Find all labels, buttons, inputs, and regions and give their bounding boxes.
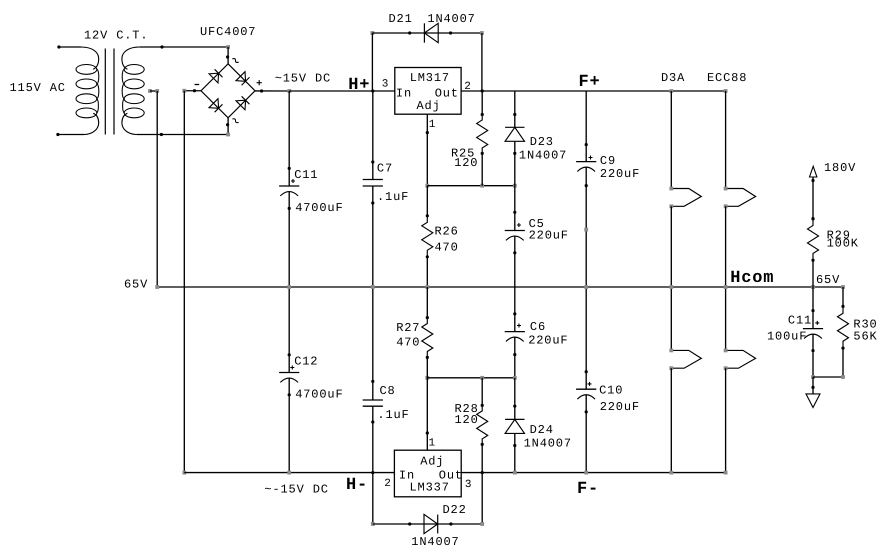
bridge ~ label top [232, 57, 238, 63]
svg-text:1: 1 [429, 119, 436, 131]
svg-text:120: 120 [455, 413, 479, 427]
resistor R29 [808, 219, 819, 261]
svg-text:~-15V DC: ~-15V DC [264, 483, 328, 497]
diode D22 [373, 523, 482, 525]
svg-text:100uF: 100uF [767, 329, 807, 343]
wire 180V to R29 [812, 177, 814, 219]
capacitor C11 100uF [812, 311, 814, 329]
svg-text:C7: C7 [377, 161, 393, 175]
tube D3A heater upper [671, 189, 701, 207]
svg-text:220uF: 220uF [528, 334, 568, 348]
bridge rectifier outline [201, 64, 255, 118]
wire D3A heater lower to F- [670, 368, 672, 472]
wire D3A heater upper riser [669, 89, 673, 93]
svg-text:220uF: 220uF [600, 400, 640, 414]
wire bridge minus vertical [183, 91, 185, 473]
svg-text:470: 470 [396, 336, 420, 350]
transformer T1 secondary winding [122, 47, 140, 69]
svg-text:C11: C11 [294, 168, 318, 182]
diode D21 [372, 32, 482, 34]
capacitor C12 [288, 355, 290, 373]
op-amp U1 LM317 box [395, 68, 461, 115]
wire C9 to rail [585, 186, 587, 287]
wire adj row bottom [425, 376, 429, 380]
wire bridge top stub [226, 45, 230, 49]
svg-text:Adj: Adj [417, 99, 441, 113]
wire C8 to H- [372, 422, 374, 473]
svg-text:C12: C12 [294, 355, 318, 369]
svg-text:D21: D21 [389, 12, 413, 26]
wire bridge bottom stub [227, 118, 229, 135]
svg-text:2: 2 [384, 478, 391, 490]
wire LM317 out [461, 90, 725, 92]
capacitor C10 [585, 372, 587, 390]
svg-text:1N4007: 1N4007 [524, 437, 572, 451]
resistor R28 [481, 378, 483, 406]
transformer T1 primary top lead [59, 46, 81, 48]
wire ECC88 heater lower to F- [725, 368, 727, 472]
capacitor C6 [514, 314, 516, 332]
resistor R27 [426, 287, 428, 318]
wire H- drop to D22 [372, 473, 374, 524]
wire ECC88 heater upper riser [724, 89, 728, 93]
wire bridge right output [255, 90, 289, 92]
svg-text:R26: R26 [435, 225, 459, 239]
svg-text:H-: H- [346, 476, 368, 495]
wire C11 to ground row [812, 351, 814, 377]
svg-text:1N4007: 1N4007 [411, 535, 459, 549]
diode D24 [514, 378, 516, 420]
bridge + label [257, 80, 262, 85]
resistor R25 [481, 91, 483, 115]
svg-text:F-: F- [577, 480, 599, 499]
svg-text:65V: 65V [816, 273, 840, 287]
wire C12 to bottom rail [288, 395, 290, 473]
svg-text:In: In [396, 87, 412, 101]
wire H+ riser to D21 [371, 31, 375, 35]
transformer T1 core [104, 49, 106, 135]
wire bridge left to minus line [184, 90, 201, 92]
bridge diode bottom-left [209, 99, 219, 109]
svg-text:65V: 65V [124, 278, 148, 292]
svg-text:220uF: 220uF [600, 167, 640, 181]
tube ECC88 heater upper [726, 189, 756, 207]
wire D3A heater lower riser [670, 287, 672, 350]
wire center tap to 65V rail [156, 91, 158, 287]
svg-text:ECC88: ECC88 [707, 71, 747, 85]
capacitor C8 [372, 381, 374, 400]
bridge diode top-left [209, 73, 219, 83]
wire R29 to rail [812, 260, 814, 287]
ground [812, 377, 814, 394]
svg-text:120: 120 [454, 156, 478, 170]
svg-text:R27: R27 [396, 321, 420, 335]
svg-text:4700uF: 4700uF [295, 388, 343, 402]
svg-text:.1uF: .1uF [377, 408, 409, 422]
svg-text:LM337: LM337 [410, 481, 450, 495]
svg-text:D3A: D3A [661, 71, 685, 85]
wire D21 to out riser [480, 31, 484, 35]
svg-text:4700uF: 4700uF [295, 201, 343, 215]
bridge - label [195, 84, 200, 86]
wire bottom rail left [182, 471, 186, 475]
svg-text:220uF: 220uF [529, 228, 569, 242]
wire LM337 adj stub [426, 378, 428, 450]
svg-text:1: 1 [429, 437, 436, 449]
svg-text:F+: F+ [579, 73, 601, 92]
svg-text:C8: C8 [380, 384, 396, 398]
svg-text:C11: C11 [788, 314, 812, 328]
wire H+ to LM317 In [373, 90, 395, 92]
bridge diode top-right [236, 72, 246, 82]
resistor R26 [422, 216, 433, 257]
node Hcom rail [157, 286, 843, 288]
tube ECC88 heater lower [726, 350, 756, 368]
svg-text:115V AC: 115V AC [10, 81, 66, 95]
bridge diode bottom-right [236, 100, 246, 110]
svg-text:470: 470 [435, 240, 459, 254]
capacitor C9 [585, 145, 587, 162]
svg-text:C9: C9 [600, 154, 616, 168]
diode D23 [514, 91, 516, 127]
svg-text:H+: H+ [348, 76, 370, 95]
wire LM337 out rail [461, 472, 725, 474]
transformer center tap [148, 89, 152, 93]
wire D3A heater upper to Hcom [670, 206, 672, 287]
capacitor C11 [288, 168, 290, 186]
svg-text:C10: C10 [599, 384, 623, 398]
svg-text:.1uF: .1uF [377, 190, 409, 204]
svg-text:3: 3 [382, 78, 389, 90]
svg-text:UFC4007: UFC4007 [200, 25, 256, 39]
wire C11 to rail [288, 208, 290, 287]
svg-text:1N4007: 1N4007 [519, 148, 567, 162]
bridge ~ label bottom [232, 118, 238, 124]
svg-text:~15V DC: ~15V DC [275, 72, 331, 86]
wire out drop to D22 [481, 473, 483, 524]
svg-text:C6: C6 [530, 320, 546, 334]
svg-text:3: 3 [465, 479, 472, 491]
transformer T1 primary winding [81, 47, 99, 69]
capacitor C7 [372, 162, 374, 180]
wire secondary bottom to bridge [137, 134, 229, 136]
svg-text:56K: 56K [853, 330, 877, 344]
wire C5 to C6 crossing Hcom [514, 253, 516, 314]
node 180V arrow [810, 166, 817, 177]
tube D3A heater lower [671, 350, 701, 368]
svg-text:100K: 100K [827, 237, 859, 251]
svg-text:Hcom: Hcom [730, 269, 774, 288]
wire C7 to rail [372, 203, 374, 287]
svg-text:D24: D24 [530, 423, 554, 437]
svg-text:D22: D22 [443, 503, 467, 517]
svg-text:LM317: LM317 [410, 71, 450, 85]
wire +rail to H+ [287, 89, 291, 93]
capacitor C5 [514, 212, 516, 230]
wire ECC88 heater lower riser [725, 287, 727, 350]
wire ECC88 heater upper to Hcom [725, 206, 727, 287]
op-amp U2 LM337 box [394, 450, 461, 497]
svg-text:180V: 180V [824, 161, 856, 175]
wire adj row top [425, 184, 429, 188]
svg-text:1N4007: 1N4007 [427, 12, 475, 26]
wire secondary top to bridge [140, 46, 229, 48]
svg-text:Adj: Adj [420, 455, 444, 469]
wire LM317 adj stub [426, 114, 428, 186]
resistor R30 [842, 287, 844, 306]
svg-text:D23: D23 [530, 135, 554, 149]
svg-text:12V C.T.: 12V C.T. [84, 29, 148, 43]
transformer T1 primary bottom lead [58, 134, 84, 136]
wire ground row [811, 375, 815, 379]
wire C10 to bottom rail [585, 412, 587, 473]
